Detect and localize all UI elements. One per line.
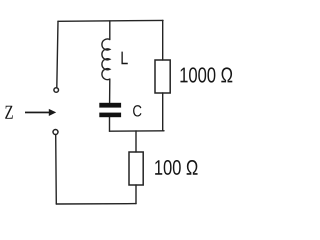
wire: capacitor to middle node xyxy=(109,117,111,131)
wire: top of middle branch xyxy=(109,21,111,40)
wire: 100 ohm branch lower vertical xyxy=(135,185,137,204)
label L xyxy=(121,52,127,65)
node: upper port terminal xyxy=(54,88,59,93)
inductor L xyxy=(102,39,110,80)
capacitor C top plate xyxy=(99,103,121,108)
arrow: impedance looking into port xyxy=(25,109,56,116)
capacitor C bottom plate xyxy=(99,113,121,118)
wire: lower-left vertical from lower terminal xyxy=(55,135,58,204)
wire: right branch upper vertical xyxy=(162,20,164,60)
node: lower port terminal xyxy=(53,130,58,135)
label: 1000 ohm value xyxy=(180,67,232,82)
wire: bottom horizontal xyxy=(56,203,136,205)
wire: top horizontal xyxy=(58,19,163,22)
label C xyxy=(133,105,141,116)
resistor R1 1000 ohm body xyxy=(155,60,170,93)
wire: inductor to capacitor xyxy=(109,79,111,102)
label: 100 ohm value xyxy=(155,160,197,175)
wire: top-left vertical to upper terminal xyxy=(57,21,58,87)
wire: right branch lower vertical xyxy=(162,93,164,131)
wire: middle horizontal joining wire xyxy=(110,130,165,132)
wire: 100 ohm branch upper vertical xyxy=(135,131,137,152)
resistor R2 100 ohm body xyxy=(129,152,143,185)
label Z xyxy=(5,106,13,119)
